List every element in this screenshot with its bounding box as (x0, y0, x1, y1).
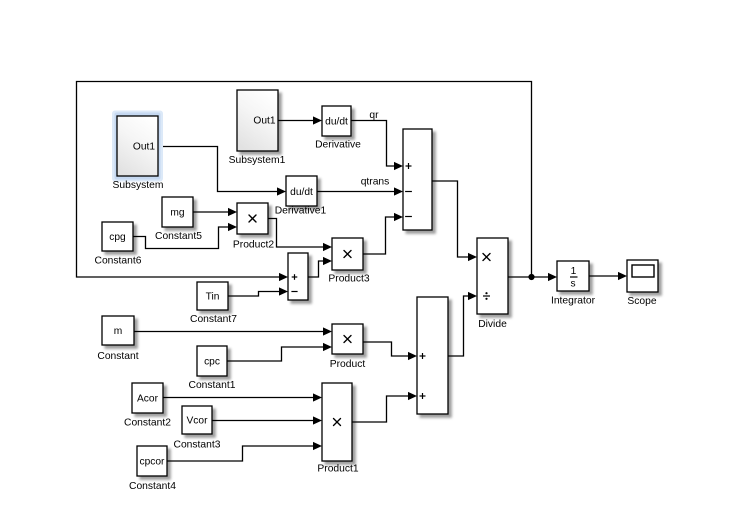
svg-text:Product2: Product2 (233, 240, 274, 251)
constant block Constant4 (cpcor) (129, 446, 176, 492)
svg-text:qtrans: qtrans (361, 177, 390, 188)
wire Integrator -> Scope input (589, 272, 627, 280)
constant block Constant (m) (97, 316, 138, 362)
svg-text:Constant5: Constant5 (155, 231, 202, 242)
product block Product1 (317, 383, 358, 475)
svg-text:mg: mg (170, 208, 184, 219)
svg-text:Derivative: Derivative (315, 140, 361, 151)
constant block Constant3 (Vcor) (174, 406, 221, 451)
svg-text:Product3: Product3 (328, 274, 369, 285)
svg-text:Constant7: Constant7 (190, 314, 237, 325)
derivative block Derivative1 (275, 176, 327, 217)
wire cpg -> Product2 input 2 (133, 223, 237, 249)
wire Product -> Sum2 input 1 (363, 342, 417, 360)
constant block Constant7 (Tin) (190, 282, 237, 325)
svg-text:cpc: cpc (204, 357, 220, 368)
wire Sum2 -> Divide divide input (448, 292, 477, 356)
svg-text:1: 1 (571, 266, 577, 277)
svg-text:qr: qr (369, 110, 379, 121)
svg-text:Scope: Scope (627, 296, 656, 307)
svg-text:Subsystem1: Subsystem1 (229, 155, 286, 166)
subsystem block Subsystem (selected, blue halo) (112, 111, 163, 192)
sum block (small, unlabeled) plus-minus (288, 253, 308, 300)
constant block Constant2 (Acor) (124, 383, 171, 429)
wire Sum1 -> Divide times input (432, 181, 477, 261)
derivative block Derivative (315, 106, 361, 151)
wire Derivative1 -> Sum1 second input, net qtrans (317, 187, 403, 195)
wire Product3 -> Sum1 third input (363, 213, 403, 254)
svg-text:Constant6: Constant6 (95, 256, 142, 267)
wire Subsystem1 Out1 -> Derivative input (278, 116, 322, 124)
constant block Constant1 (cpc) (189, 346, 236, 391)
wire Sum (small) -> Product3 input 2 (308, 257, 332, 277)
svg-text:Constant4: Constant4 (129, 481, 176, 492)
svg-text:Subsystem: Subsystem (113, 180, 164, 191)
wire Vcor -> Product1 input 2 (212, 416, 322, 424)
svg-text:Derivative1: Derivative1 (275, 206, 327, 217)
wire m -> Product input 1 (134, 327, 332, 335)
svg-text:Constant1: Constant1 (189, 380, 236, 391)
product block Product (330, 324, 366, 370)
wire cpcor -> Product1 input 3 (167, 442, 322, 461)
svg-text:Tin: Tin (206, 292, 220, 303)
scope block Scope (627, 260, 658, 307)
constant block Constant5 (mg) (155, 197, 202, 242)
svg-text:Divide: Divide (478, 319, 507, 330)
svg-text:Product: Product (330, 359, 366, 370)
svg-text:Acor: Acor (137, 394, 159, 405)
wire Acor -> Product1 input 1 (163, 393, 322, 401)
wire Product2 -> Product3 input 1 (268, 219, 332, 252)
subsystem block Subsystem1 (229, 90, 286, 166)
svg-text:Out1: Out1 (133, 142, 155, 153)
wire cpc -> Product input 2 (227, 343, 332, 361)
junction dot on Divide output (528, 274, 534, 280)
product block Product3 (328, 238, 369, 285)
svg-text:Integrator: Integrator (551, 296, 596, 307)
node label qtrans (361, 177, 390, 188)
wire Product1 -> Sum2 input 2 (352, 392, 417, 422)
svg-text:du/dt: du/dt (290, 187, 313, 198)
svg-text:Product1: Product1 (317, 464, 358, 475)
wire Subsystem Out1 -> Derivative1 input (158, 147, 286, 196)
integrator block Integrator (1/s) (551, 261, 596, 307)
sum block Sum1 (plus minus minus) (403, 129, 432, 230)
constant block Constant6 (cpg) (95, 222, 142, 267)
svg-text:s: s (570, 279, 575, 290)
product block Product2 (233, 203, 274, 251)
wire Tin -> Sum (small) minus input (228, 287, 288, 296)
svg-text:Out1: Out1 (253, 116, 275, 127)
divide block Divide (477, 238, 508, 330)
node label qr (369, 110, 379, 121)
svg-text:Constant2: Constant2 (124, 418, 171, 429)
svg-text:cpcor: cpcor (140, 457, 166, 468)
svg-text:m: m (114, 326, 123, 337)
wire mg -> Product2 input 1 (193, 208, 237, 216)
svg-text:du/dt: du/dt (325, 117, 348, 128)
svg-text:Vcor: Vcor (187, 416, 209, 427)
svg-text:Constant3: Constant3 (174, 440, 221, 451)
svg-text:Constant: Constant (97, 351, 138, 362)
wire Derivative -> Sum1 first input, net qr (351, 121, 403, 171)
sum block Sum2 (plus plus) (417, 297, 448, 414)
svg-text:cpg: cpg (109, 232, 126, 243)
wire Divide output -> Integrator input (508, 273, 557, 281)
wire feedback loop: Divide output junction up over top, down left side, into Sum + input (77, 82, 532, 282)
